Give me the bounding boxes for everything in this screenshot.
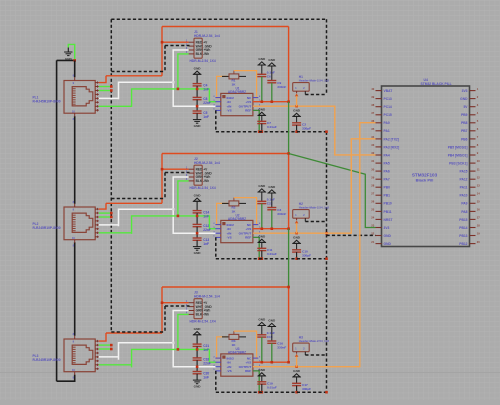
svg-text:GND: GND xyxy=(194,251,202,255)
wire orange channel 1 output to MCU PA4 xyxy=(310,106,376,155)
svg-text:PB7: PB7 xyxy=(461,129,468,133)
capacitor C8 22nF xyxy=(193,97,211,105)
svg-text:13: 13 xyxy=(477,183,480,187)
wire white PL3 pin5 xyxy=(99,356,119,358)
capacitor C10 330pF xyxy=(292,250,311,258)
svg-text:HDR-M-2.54_1x4: HDR-M-2.54_1x4 xyxy=(194,161,220,165)
svg-text:GND: GND xyxy=(258,108,266,112)
svg-text:BLK -Wh: BLK -Wh xyxy=(196,313,210,317)
op-amp U2 AD8479BRZ xyxy=(213,220,261,242)
connector H2 header 1x2 xyxy=(293,210,310,219)
svg-text:0.01uF: 0.01uF xyxy=(267,125,277,129)
svg-text:PB8: PB8 xyxy=(461,121,468,125)
wire orange H2 pin1 to output net xyxy=(295,218,299,233)
svg-text:AD8479BRZ: AD8479BRZ xyxy=(228,217,246,221)
wire cap C to shield xyxy=(261,251,263,259)
svg-text:GND: GND xyxy=(268,58,276,62)
wire green PL3 pin3 stub xyxy=(99,348,112,350)
capacitor C13 1nF xyxy=(193,238,210,246)
op-amp U1 AD8479BRZ xyxy=(213,93,261,115)
svg-text:C6: C6 xyxy=(267,75,271,79)
junction shield corner xyxy=(325,130,328,133)
junction dots on shield net xyxy=(110,212,113,215)
wire black PL1-PL2 shield xyxy=(74,116,76,204)
wire cap D to shield xyxy=(296,252,298,259)
ground below cap chain xyxy=(193,240,201,255)
svg-text:-VS: -VS xyxy=(227,369,232,373)
label U4 reference xyxy=(421,78,452,86)
junction green crossing xyxy=(196,88,199,91)
dashed shield to MCU ground pin xyxy=(327,234,376,236)
dashed shield right edge lower xyxy=(326,132,328,393)
svg-text:21: 21 xyxy=(371,240,374,244)
svg-text:GND: GND xyxy=(293,109,301,113)
label H3 reference xyxy=(299,336,330,344)
power flag GND above cap C xyxy=(258,108,266,122)
power flag GND above decoupling cap B xyxy=(268,58,276,80)
junction white crossing xyxy=(196,105,199,108)
wire red +V feed to PL3 pin1 xyxy=(99,333,106,341)
svg-text:REF: REF xyxy=(245,236,251,240)
svg-text:GND: GND xyxy=(194,385,202,389)
wire cap C to shield xyxy=(261,384,263,392)
wire H2 pin2 to dashed shield xyxy=(305,218,326,221)
svg-text:GND: GND xyxy=(384,242,392,246)
svg-text:0.01uF: 0.01uF xyxy=(267,386,277,390)
svg-text:40: 40 xyxy=(371,87,374,91)
svg-text:REF: REF xyxy=(245,109,251,113)
label U2 reference xyxy=(228,214,246,221)
svg-text:3V3: 3V3 xyxy=(384,226,390,230)
svg-text:27: 27 xyxy=(371,191,374,195)
svg-text:17: 17 xyxy=(477,216,480,220)
svg-text:+VS: +VS xyxy=(245,100,251,104)
svg-text:AD8479BRZ: AD8479BRZ xyxy=(228,90,246,94)
wire red +V feed to PL2 pin1 xyxy=(99,203,106,209)
wire green PL1 pin3 stub xyxy=(99,90,112,92)
junction shield black xyxy=(73,59,76,62)
junction orange xyxy=(295,365,298,368)
svg-text:PA12: PA12 xyxy=(459,178,467,182)
svg-text:STM32 BLACK PILL: STM32 BLACK PILL xyxy=(421,82,452,86)
junction REF on dashed shield xyxy=(258,257,261,260)
wire cap chain 2 xyxy=(196,100,198,111)
svg-text:NRST: NRST xyxy=(384,218,393,222)
svg-text:28: 28 xyxy=(371,183,374,187)
svg-text:1nF: 1nF xyxy=(203,242,209,246)
svg-text:PA2 [TX2]: PA2 [TX2] xyxy=(384,137,399,141)
svg-text:1nF: 1nF xyxy=(203,87,209,91)
junction shield-orange crossing xyxy=(325,232,328,235)
power flag GND above filter caps xyxy=(193,194,201,211)
power flag GND above decoupling cap A xyxy=(258,318,266,335)
svg-text:GND: GND xyxy=(194,327,202,331)
svg-text:Header-Male-2.54_1x2: Header-Male-2.54_1x2 xyxy=(299,206,330,210)
svg-text:PA0: PA0 xyxy=(384,121,390,125)
wire orange U2 OUTPUT xyxy=(253,232,310,234)
junction shield corner xyxy=(325,391,328,394)
svg-text:PB11: PB11 xyxy=(384,210,392,214)
svg-text:HDR-M-2.54_1x4: HDR-M-2.54_1x4 xyxy=(194,294,220,298)
capacitor C9 330nF xyxy=(267,81,286,90)
wire red +V rail feed (channel J3) xyxy=(162,286,289,288)
svg-text:19: 19 xyxy=(477,232,480,236)
svg-text:36: 36 xyxy=(371,119,374,123)
wire white J2 pin3 to amplifier xyxy=(173,177,216,233)
capacitor C15 0.1uF xyxy=(257,331,275,339)
wire red U1 +VS to rail xyxy=(253,101,289,103)
wire black PL1 shield top xyxy=(74,60,76,77)
svg-text:Black Pill: Black Pill xyxy=(416,178,434,183)
capacitor C3 330nF xyxy=(267,208,286,217)
wire orange U3 OUTPUT xyxy=(253,366,310,368)
svg-text:BLK -Wh: BLK -Wh xyxy=(196,52,210,56)
svg-text:22nF: 22nF xyxy=(203,228,210,232)
label J3 reference xyxy=(194,291,220,299)
svg-text:GND: GND xyxy=(258,184,266,188)
power flag GND above cap D xyxy=(292,236,300,250)
junction feed channel 2 xyxy=(287,152,290,155)
wire green PL1 pin2 stub xyxy=(99,86,112,88)
wire green PL3 pin7 xyxy=(99,364,132,366)
wire red +V rail drop xyxy=(288,154,290,229)
svg-text:PB13: PB13 xyxy=(459,234,467,238)
wire red feed drop channel 3 xyxy=(161,287,163,333)
wire green PL3 pin2 stub xyxy=(99,344,112,346)
svg-text:R-RJ45R10P-8000: R-RJ45R10P-8000 xyxy=(33,358,61,362)
junction red xyxy=(161,41,164,44)
svg-text:PB0: PB0 xyxy=(384,186,391,190)
wire cap D to shield xyxy=(296,125,298,132)
svg-text:GND: GND xyxy=(258,57,266,61)
svg-text:22nF: 22nF xyxy=(203,101,210,105)
connector H1 header 1x2 xyxy=(293,83,310,92)
junction orange xyxy=(295,105,298,108)
svg-text:PB9: PB9 xyxy=(461,113,468,117)
wire green shield loop at PL1 xyxy=(68,44,74,60)
svg-text:BLK -Wh: BLK -Wh xyxy=(196,179,210,183)
sheet divider line xyxy=(0,371,500,373)
label U3 reference xyxy=(228,347,246,354)
svg-text:29: 29 xyxy=(371,175,374,179)
dashed shield outline below amplifier xyxy=(216,110,327,131)
wire red feed drop channel 1 xyxy=(161,27,163,76)
capacitor C16 330nF xyxy=(267,341,286,350)
ground symbol GND top left xyxy=(64,48,72,61)
capacitor C17 330pF xyxy=(292,383,311,391)
connector J3 header 1x4 xyxy=(186,299,212,319)
svg-text:330pF: 330pF xyxy=(302,127,311,131)
svg-text:11: 11 xyxy=(477,167,480,171)
svg-text:HDR-M-2.54_1x4: HDR-M-2.54_1x4 xyxy=(194,34,220,38)
wire orange channel 3 output to MCU PA0 xyxy=(310,123,376,367)
svg-text:GND: GND xyxy=(258,318,266,322)
wire orange H3 pin1 to output net xyxy=(295,352,299,367)
wire red feed to PL2 xyxy=(106,202,162,204)
label R1 1K xyxy=(232,79,237,87)
microcontroller U4 STM32 Black Pill xyxy=(371,86,480,247)
power flag GND above decoupling cap B xyxy=(268,319,276,341)
svg-text:330pF: 330pF xyxy=(302,254,311,258)
wire red +V rail feed (channel J2) xyxy=(162,153,289,155)
label R3 1K xyxy=(232,339,237,347)
svg-text:18: 18 xyxy=(477,224,480,228)
resistor R3 1K with orange feedback loop xyxy=(217,331,257,358)
svg-text:12: 12 xyxy=(477,175,480,179)
wire red branch to J2 pin1 xyxy=(162,168,189,170)
wire H3 pin2 to dashed shield xyxy=(305,352,326,355)
label J1 reference xyxy=(194,30,220,38)
junction red rail xyxy=(287,100,290,103)
capacitor C11 0.01uF xyxy=(257,248,277,256)
svg-text:PB5 [MOSI1]: PB5 [MOSI1] xyxy=(448,145,468,149)
svg-text:GND: GND xyxy=(194,67,202,71)
wire red U2 +VS to rail xyxy=(253,228,289,230)
junction orange xyxy=(295,232,298,235)
svg-text:330pF: 330pF xyxy=(302,387,311,391)
wire cap chain xyxy=(196,346,198,358)
svg-text:33: 33 xyxy=(371,143,374,147)
svg-text:PB4 [MISO1]: PB4 [MISO1] xyxy=(448,153,468,157)
capacitor C14 1nF xyxy=(193,210,210,218)
power flag GND above decoupling cap B xyxy=(268,185,276,207)
wire green J3 pin4 drop xyxy=(178,314,189,349)
junction green xyxy=(177,88,180,91)
svg-text:-VS: -VS xyxy=(227,109,232,113)
capacitor C19 0.01uF xyxy=(257,382,277,390)
label R2 1K xyxy=(232,206,237,214)
wire green J2 pin4 drop xyxy=(178,181,189,216)
junction cap C on shield xyxy=(261,257,264,260)
junction cap A xyxy=(261,361,264,364)
junction cap B xyxy=(271,227,274,230)
label PL1 value xyxy=(33,96,61,104)
svg-text:HDR-M-2.54_1X4: HDR-M-2.54_1X4 xyxy=(190,319,216,323)
junction cap A xyxy=(261,227,264,230)
wire white J3 pin3 to amplifier xyxy=(173,311,216,367)
svg-text:PB1: PB1 xyxy=(384,194,391,198)
dashed shield outline below amplifier xyxy=(216,371,327,392)
wire green rail link channel1-2 xyxy=(288,102,290,154)
wire green cap A to +VS rail xyxy=(261,337,263,362)
wire orange U1 OUTPUT xyxy=(253,105,310,107)
svg-text:PB6: PB6 xyxy=(461,137,468,141)
svg-text:25: 25 xyxy=(371,208,374,212)
svg-text:330nF: 330nF xyxy=(277,85,286,89)
svg-text:R-RJ45R10P-8000: R-RJ45R10P-8000 xyxy=(33,226,61,230)
svg-text:PB15: PB15 xyxy=(459,218,467,222)
svg-text:+VS: +VS xyxy=(245,361,251,365)
wire green from connector to amplifier xyxy=(132,349,217,367)
wire green PL2 pin7 xyxy=(99,232,132,234)
wire cap chain xyxy=(196,86,198,98)
junction white xyxy=(172,208,175,211)
svg-text:10: 10 xyxy=(477,159,480,163)
junction dots on shield net xyxy=(110,344,113,347)
svg-text:PB10: PB10 xyxy=(384,202,392,206)
svg-text:PA9: PA9 xyxy=(461,202,467,206)
wire red +V rail drop xyxy=(288,27,290,102)
svg-text:PB14: PB14 xyxy=(459,226,467,230)
svg-text:PA11: PA11 xyxy=(460,186,468,190)
svg-text:PA4: PA4 xyxy=(384,153,390,157)
capacitor C22 0.1uF xyxy=(257,198,275,206)
wire green PL2 pin3 stub xyxy=(99,216,112,218)
wire white from connector xyxy=(119,343,174,360)
svg-text:GND: GND xyxy=(293,369,301,373)
wire orange channel 2 output to MCU PA2 xyxy=(310,139,376,233)
junction white crossing xyxy=(196,365,199,368)
wire green cap B to +VS rail xyxy=(271,83,273,102)
junction green xyxy=(177,348,180,351)
junction cap C on shield xyxy=(261,391,264,394)
dashed shield enclosure outer xyxy=(111,19,326,332)
svg-text:GND: GND xyxy=(460,97,468,101)
dashed shield outline around header xyxy=(111,306,189,332)
junction REF on dashed shield xyxy=(258,130,261,133)
wire white PL2 pin5 xyxy=(99,224,119,226)
wire white PL1 pin5 xyxy=(99,97,119,99)
junction cap D on shield xyxy=(295,391,298,394)
junction green crossing xyxy=(196,215,199,218)
wire H1 pin2 to dashed shield xyxy=(305,91,326,94)
svg-text:31: 31 xyxy=(371,159,374,163)
svg-text:39: 39 xyxy=(371,95,374,99)
capacitor C5 1nF xyxy=(193,111,209,119)
svg-text:VBAT: VBAT xyxy=(384,89,393,93)
ground below cap chain xyxy=(193,374,201,389)
svg-text:GND: GND xyxy=(258,368,266,372)
junction cap B xyxy=(271,361,274,364)
svg-text:R-RJ45R10P-8000: R-RJ45R10P-8000 xyxy=(33,99,61,103)
wire red +V rail drop xyxy=(288,287,290,362)
junction cap A xyxy=(261,100,264,103)
dashed shield outline around header xyxy=(111,46,189,72)
wire black PL2-PL3 shield xyxy=(74,242,76,336)
wire red feed to PL3 xyxy=(106,332,162,334)
svg-text:PA6: PA6 xyxy=(384,170,390,174)
svg-text:35: 35 xyxy=(371,127,374,131)
junction green crossing xyxy=(196,348,199,351)
wire green from connector to amplifier xyxy=(132,89,217,107)
svg-text:PA8: PA8 xyxy=(461,210,467,214)
wire red branch to J1 pin1 xyxy=(162,41,189,43)
svg-text:GND: GND xyxy=(384,234,392,238)
wire green U1 REF to shield xyxy=(253,110,259,131)
junction cap C on shield xyxy=(261,130,264,133)
svg-text:3V3: 3V3 xyxy=(462,89,468,93)
label STM32F103 Black Pill xyxy=(412,173,438,183)
wire green cap B to +VS rail xyxy=(271,210,273,229)
svg-text:PA7: PA7 xyxy=(384,178,390,182)
svg-text:37: 37 xyxy=(371,111,374,115)
junction white crossing xyxy=(196,232,199,235)
capacitor C20 1nF xyxy=(193,371,210,379)
wire white from connector xyxy=(119,82,174,99)
svg-text:GND: GND xyxy=(194,124,202,128)
junction shield corner xyxy=(325,257,328,260)
label PL2 value xyxy=(33,222,61,230)
svg-text:PC14: PC14 xyxy=(384,105,392,109)
junction cap D on shield xyxy=(295,130,298,133)
wire green J1 pin4 drop xyxy=(178,54,189,89)
svg-text:1nF: 1nF xyxy=(203,348,209,352)
svg-text:GND: GND xyxy=(268,185,276,189)
svg-text:HDR-M-2.54_1X4: HDR-M-2.54_1X4 xyxy=(190,59,216,63)
svg-text:PC13: PC13 xyxy=(384,97,392,101)
svg-text:16: 16 xyxy=(477,208,480,212)
svg-text:30: 30 xyxy=(371,167,374,171)
svg-text:HDR-M-2.54_1X4: HDR-M-2.54_1X4 xyxy=(190,186,216,190)
wire red feed to PL1 xyxy=(106,75,162,77)
connector PL1 RJ45 jack xyxy=(64,74,99,121)
wire cap chain 2 xyxy=(196,227,198,238)
svg-text:32: 32 xyxy=(371,151,374,155)
junction cap D on shield xyxy=(295,257,298,260)
wire cap C to shield xyxy=(261,124,263,132)
svg-text:PA1: PA1 xyxy=(384,129,390,133)
junction green xyxy=(177,215,180,218)
svg-text:+VS: +VS xyxy=(245,227,251,231)
wire white J1 pin3 to amplifier xyxy=(173,50,216,106)
wire red feed drop channel 2 xyxy=(161,154,163,204)
resistor R1 1K with orange feedback loop xyxy=(217,71,257,98)
svg-text:34: 34 xyxy=(371,135,374,139)
junction feed channel 3 xyxy=(287,286,290,289)
power flag GND above decoupling cap A xyxy=(258,184,266,201)
svg-text:1nF: 1nF xyxy=(203,375,209,379)
svg-text:-VS: -VS xyxy=(227,236,232,240)
wire red U3 +VS to rail xyxy=(253,361,289,363)
label PL3 value xyxy=(33,354,61,362)
svg-text:24: 24 xyxy=(371,216,374,220)
svg-text:GND: GND xyxy=(258,235,266,239)
capacitor C6 0.1uF xyxy=(257,71,275,79)
svg-text:PC15: PC15 xyxy=(384,113,392,117)
svg-text:Header-Male-2.54_1x2: Header-Male-2.54_1x2 xyxy=(299,339,330,343)
junction REF on dashed shield xyxy=(258,391,261,394)
svg-text:Header-Male-2.54_1x2: Header-Male-2.54_1x2 xyxy=(299,79,330,83)
dashed shield outline below amplifier xyxy=(216,237,327,258)
wire white from connector xyxy=(119,209,174,226)
wire cap D to shield xyxy=(296,386,298,393)
power flag GND above cap D xyxy=(292,109,300,123)
capacitor C7 0.01uF xyxy=(257,121,277,129)
capacitor C12 22nF xyxy=(193,224,211,232)
wire green U3 REF to shield xyxy=(253,371,259,392)
label H2 reference xyxy=(299,202,330,210)
junction white xyxy=(172,81,175,84)
connector H3 header 1x2 xyxy=(293,343,310,352)
junction cap B xyxy=(271,100,274,103)
connector J1 header 1x4 xyxy=(186,38,212,58)
junction red xyxy=(161,301,164,304)
capacitor C18 22nF xyxy=(193,358,211,366)
svg-text:PA15: PA15 xyxy=(459,170,467,174)
svg-text:0.01uF: 0.01uF xyxy=(267,252,277,256)
svg-text:330nF: 330nF xyxy=(277,212,286,216)
svg-text:GND: GND xyxy=(268,319,276,323)
junction red xyxy=(161,168,164,171)
svg-text:GND: GND xyxy=(194,194,202,198)
wire cap chain 2 xyxy=(196,360,198,371)
wire black shield bus xyxy=(57,60,75,381)
wire green cap A to +VS rail xyxy=(261,204,263,229)
svg-text:20: 20 xyxy=(477,240,480,244)
capacitor C2 330pF xyxy=(292,123,311,131)
wire green PL1 pin7 xyxy=(99,105,132,107)
wire red branch to J3 pin1 xyxy=(162,302,189,304)
